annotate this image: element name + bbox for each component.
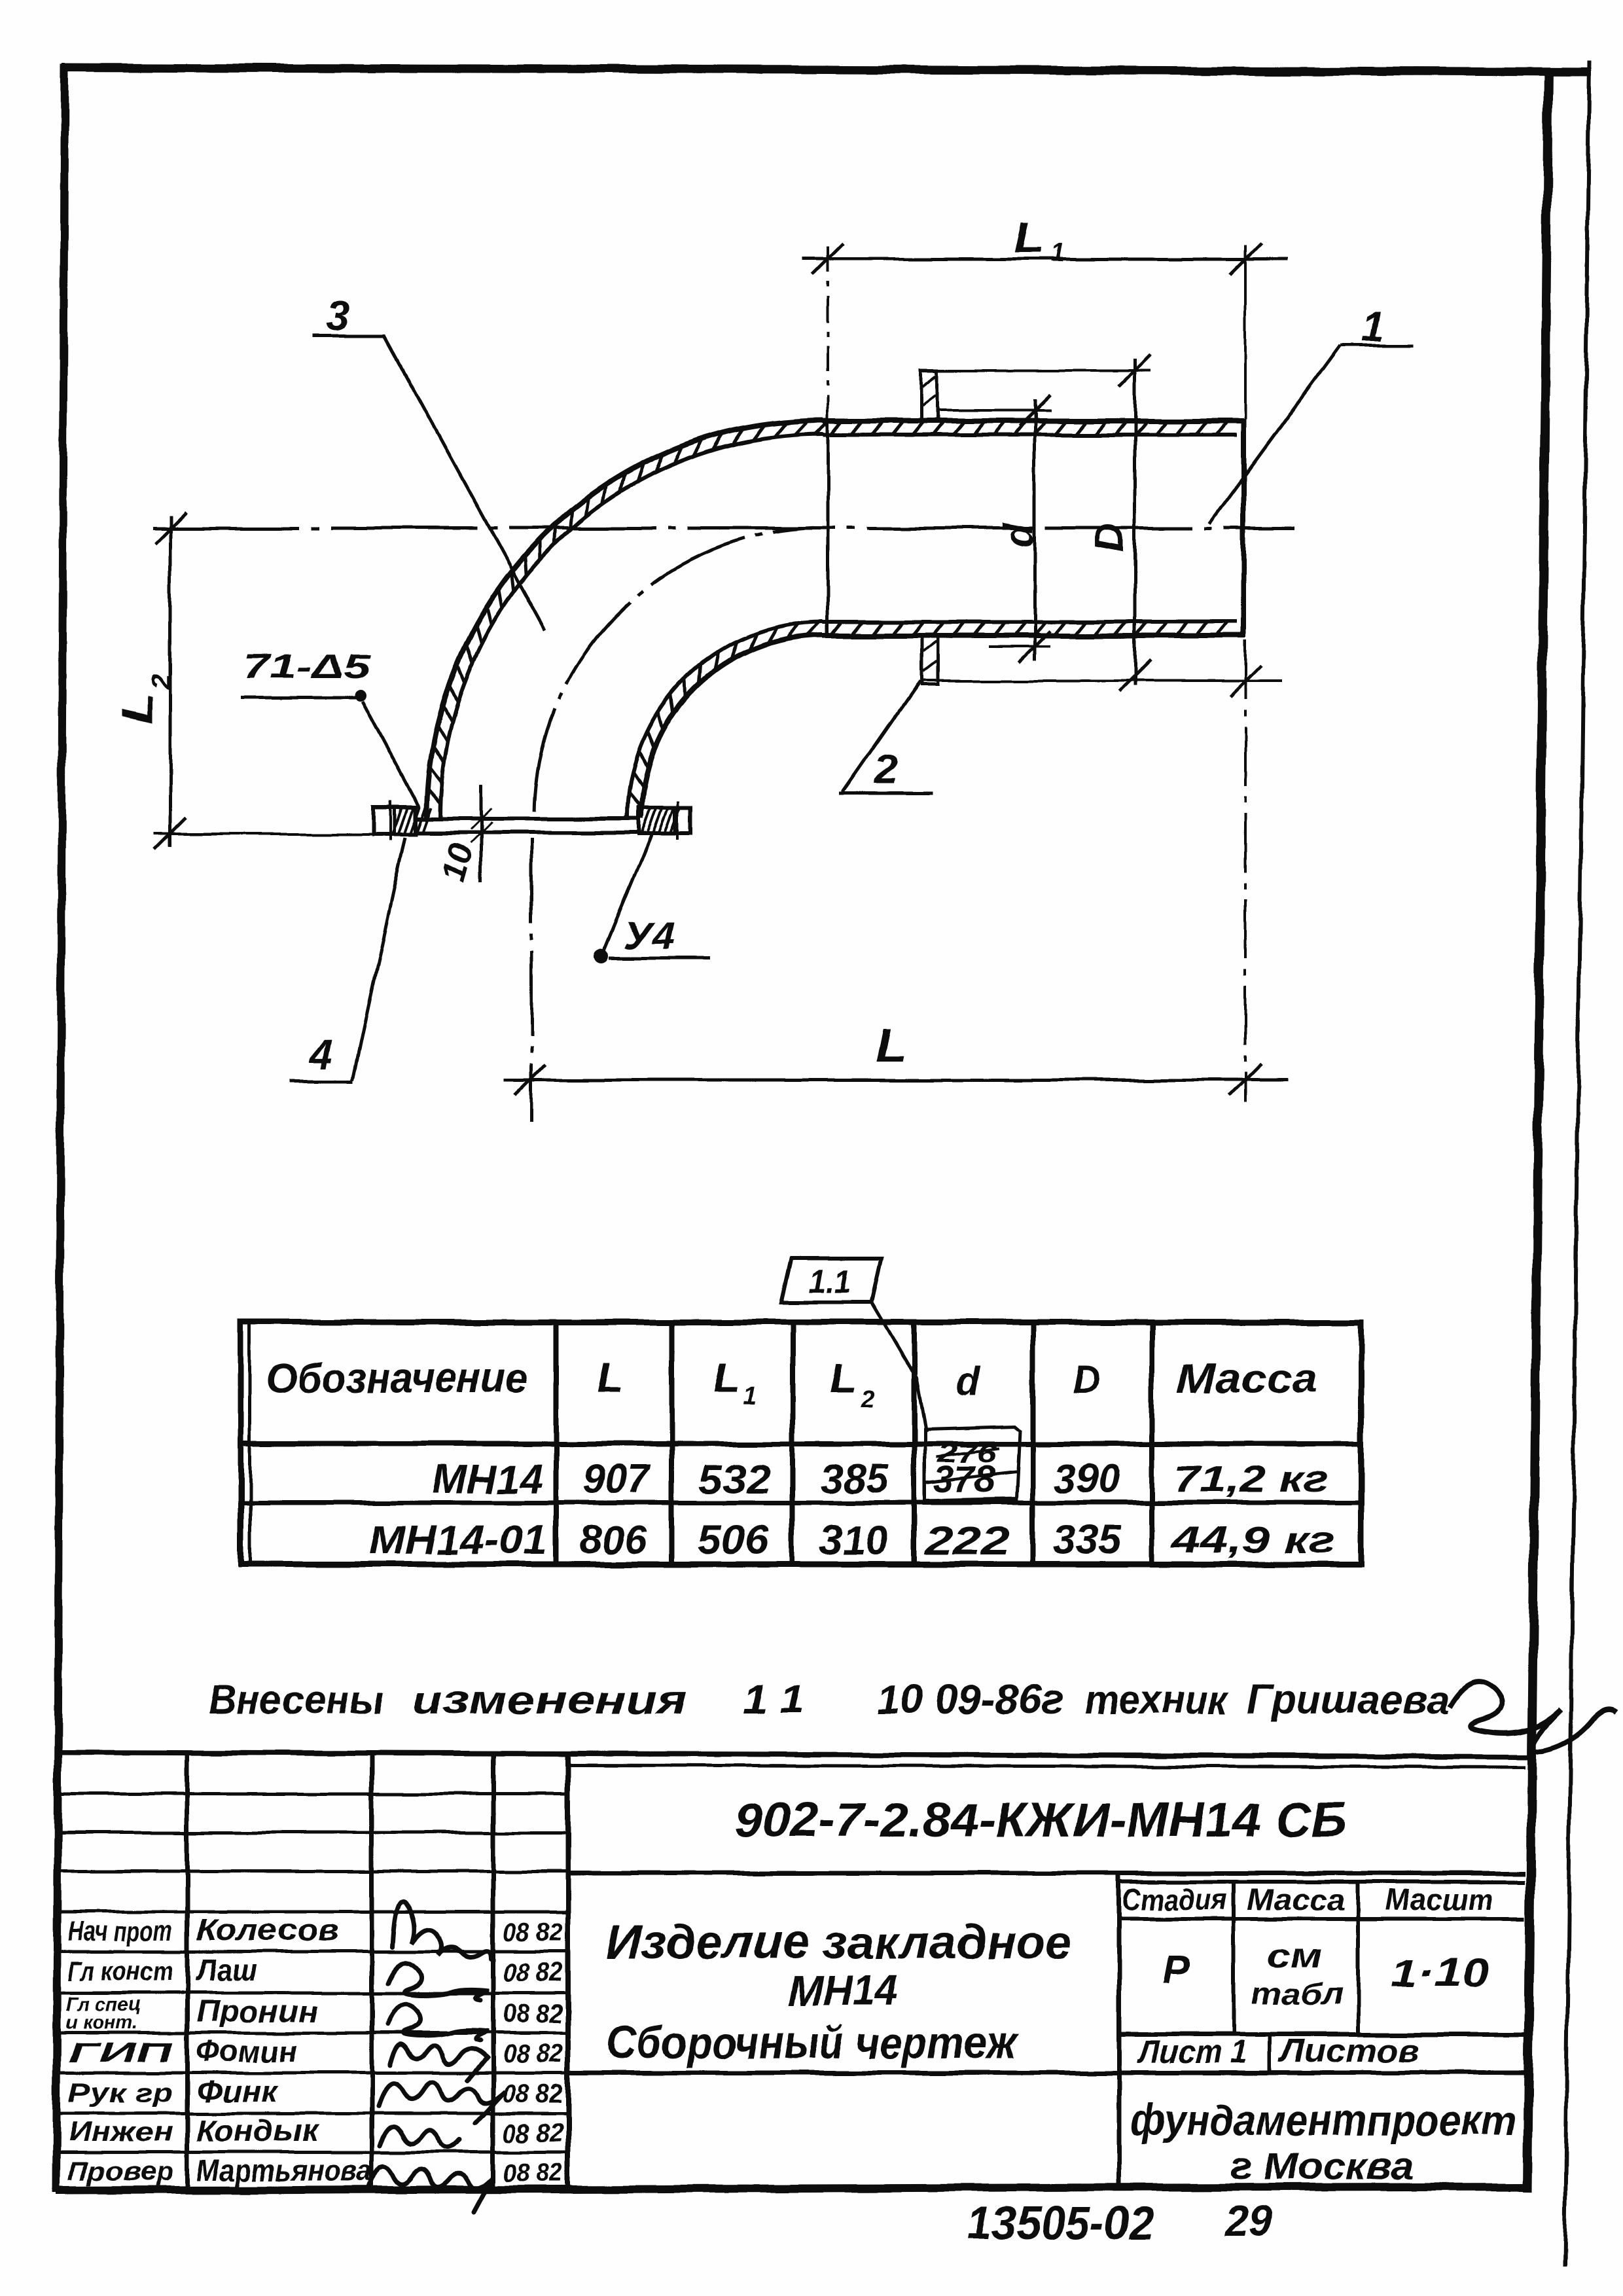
pipe wall hatching: bend outer wall — [428, 789, 441, 804]
svg-text:ГИП: ГИП — [68, 2037, 173, 2068]
item 3: vertical pipe stubs to flange — [424, 816, 429, 819]
svg-text:08 82: 08 82 — [503, 2039, 563, 2068]
svg-text:L: L — [876, 1020, 907, 1071]
pipe wall hatching: bend inner wall — [629, 793, 641, 808]
svg-text:506: 506 — [697, 1518, 770, 1563]
change cloud box in d cell — [925, 1426, 1020, 1501]
svg-text:Р: Р — [1164, 1948, 1190, 1992]
right section verticals — [1117, 1873, 1122, 2191]
svg-text:МН14-01: МН14-01 — [368, 1518, 548, 1563]
item 4: flange right pin mark — [677, 801, 679, 840]
svg-text:Гл конст: Гл конст — [68, 1956, 173, 1986]
doc number cell double top line — [568, 1765, 1525, 1767]
dimension L extension right (dash) — [1244, 640, 1247, 1102]
svg-text:08 82: 08 82 — [503, 2000, 563, 2028]
table row lines — [241, 1441, 1361, 1446]
svg-text:335: 335 — [1053, 1518, 1123, 1563]
pipe wall hatching: top wall — [831, 421, 842, 435]
svg-text:310: 310 — [820, 1518, 889, 1564]
svg-text:902-7-2.84-КЖИ-МН14 СБ: 902-7-2.84-КЖИ-МН14 СБ — [735, 1793, 1347, 1847]
horizontal centreline — [152, 527, 1294, 530]
dimension L1 extension left (dashed) — [827, 246, 829, 419]
svg-text:L: L — [1014, 213, 1044, 262]
dimension d line — [1033, 399, 1037, 661]
svg-text:изменения: изменения — [412, 1677, 687, 1723]
svg-text:Масса: Масса — [1177, 1356, 1318, 1401]
note signature squiggle — [1450, 1682, 1616, 1751]
svg-text:1: 1 — [1050, 239, 1065, 268]
svg-text:Финк: Финк — [196, 2074, 279, 2108]
svg-text:71-Δ5: 71-Δ5 — [243, 648, 371, 686]
signatures — [393, 1902, 491, 1959]
svg-text:Изделие закладное: Изделие закладное — [607, 1916, 1073, 1969]
table outer border — [241, 1322, 1361, 1564]
item 4: flange right block — [639, 808, 691, 834]
svg-text:см: см — [1267, 1939, 1323, 1974]
svg-text:г Москва: г Москва — [1230, 2144, 1414, 2188]
svg-text:Пронин: Пронин — [196, 1994, 318, 2028]
item 3: bend outer wall arcs — [427, 420, 823, 817]
svg-text:1·10: 1·10 — [1391, 1951, 1489, 1995]
dimension D extensions — [921, 369, 1150, 372]
svg-text:10 09-86г: 10 09-86г — [877, 1677, 1063, 1723]
svg-text:МН14: МН14 — [432, 1457, 543, 1502]
svg-text:L: L — [713, 1354, 740, 1401]
svg-text:Обозначение: Обозначение — [266, 1354, 527, 1401]
svg-text:Инжен: Инжен — [68, 2116, 173, 2147]
svg-text:3: 3 — [326, 293, 349, 340]
svg-text:1 1: 1 1 — [743, 1677, 805, 1723]
pipe wall hatching: bottom wall — [831, 622, 842, 636]
svg-text:806: 806 — [579, 1518, 648, 1563]
svg-text:08 82: 08 82 — [503, 1918, 563, 1947]
svg-text:Листов: Листов — [1279, 2032, 1418, 2069]
change flag leader — [872, 1302, 926, 1431]
svg-text:2: 2 — [874, 746, 898, 793]
bend centreline arc — [534, 528, 813, 812]
dimension L line — [504, 1079, 1288, 1082]
change flag 1.1 — [781, 1259, 882, 1302]
svg-text:Лаш: Лаш — [194, 1953, 257, 1987]
dimension L2 line — [169, 516, 172, 847]
dimension L2 bottom extension — [154, 833, 383, 835]
svg-text:44,9 кг: 44,9 кг — [1171, 1518, 1336, 1561]
table column lines — [554, 1322, 559, 1564]
dimension L1 extension right — [1244, 245, 1247, 419]
svg-text:532: 532 — [698, 1457, 770, 1502]
dimension d extensions — [939, 409, 1050, 412]
dimension 10 (flange plate thickness) — [480, 784, 483, 882]
svg-text:МН14: МН14 — [788, 1966, 898, 2015]
svg-text:1.1: 1.1 — [809, 1265, 851, 1299]
svg-text:1: 1 — [743, 1382, 757, 1410]
svg-text:фундаментпроект: фундаментпроект — [1130, 2096, 1516, 2144]
svg-text:d: d — [957, 1360, 982, 1404]
sheet outer edge line — [1565, 61, 1590, 2266]
svg-text:L: L — [113, 692, 161, 724]
svg-text:08 82: 08 82 — [503, 2079, 563, 2108]
svg-text:L: L — [596, 1354, 624, 1401]
left table verticals — [185, 1752, 190, 2189]
svg-text:08 82: 08 82 — [503, 2119, 563, 2147]
svg-text:Лист 1: Лист 1 — [1137, 2034, 1247, 2070]
svg-text:10: 10 — [435, 839, 481, 886]
svg-text:Нач прот: Нач прот — [68, 1916, 173, 1946]
item 2: top stub plate — [921, 370, 938, 421]
item 4: flange left pin mark — [389, 801, 392, 840]
item 1: straight pipe, bottom wall — [823, 620, 1237, 624]
svg-text:Стадия: Стадия — [1122, 1882, 1227, 1916]
svg-text:08 82: 08 82 — [503, 1958, 563, 1987]
dimension L1 line — [802, 258, 1288, 261]
doc number cell — [568, 1871, 1525, 1876]
svg-text:2: 2 — [860, 1386, 874, 1413]
svg-text:и конт.: и конт. — [65, 2012, 137, 2034]
svg-text:222: 222 — [924, 1518, 1010, 1564]
svg-text:71,2 кг: 71,2 кг — [1175, 1458, 1329, 1501]
svg-text:Внесены: Внесены — [208, 1677, 383, 1723]
svg-text:4: 4 — [308, 1030, 332, 1077]
title block top line — [56, 1752, 1527, 1757]
svg-text:Масшт: Масшт — [1386, 1882, 1494, 1916]
svg-text:d: d — [997, 522, 1042, 548]
svg-text:1: 1 — [1361, 302, 1385, 350]
svg-text:907: 907 — [584, 1457, 651, 1502]
svg-text:D: D — [1088, 524, 1133, 553]
right section horizontals — [1119, 1880, 1525, 1884]
svg-text:13505-02: 13505-02 — [967, 2197, 1154, 2248]
svg-text:29: 29 — [1224, 2197, 1272, 2244]
item 4: flange plate — [416, 817, 639, 821]
svg-text:Провер: Провер — [68, 2156, 173, 2187]
item 2: bottom stub plate — [921, 636, 938, 685]
left table row lines — [56, 1793, 568, 1796]
svg-text:Колесов: Колесов — [196, 1913, 338, 1947]
svg-text:Гришаева: Гришаева — [1247, 1677, 1450, 1723]
weld joint line bend/pipe — [827, 421, 830, 638]
svg-text:390: 390 — [1054, 1457, 1120, 1502]
svg-text:Рук гр: Рук гр — [68, 2077, 173, 2108]
svg-text:У4: У4 — [623, 915, 675, 958]
item 1: pipe end face — [1241, 419, 1246, 637]
item 3: bend inner wall arcs — [628, 621, 823, 817]
svg-text:Фомин: Фомин — [196, 2034, 298, 2068]
svg-text:385: 385 — [820, 1457, 890, 1502]
svg-text:2: 2 — [145, 674, 176, 690]
item 1: straight pipe, top wall — [823, 418, 1245, 423]
svg-text:D: D — [1072, 1357, 1100, 1401]
svg-text:табл: табл — [1251, 1977, 1343, 2011]
svg-text:Мартьянова: Мартьянова — [196, 2153, 372, 2187]
vertical centreline below flange — [530, 838, 533, 1121]
svg-text:Сборочный чертеж: Сборочный чертеж — [607, 2017, 1018, 2068]
svg-text:техник: техник — [1085, 1677, 1229, 1723]
item 4: flange left block — [374, 808, 416, 834]
svg-text:Кондык: Кондык — [196, 2113, 320, 2147]
dimension D line — [1133, 359, 1137, 686]
svg-text:Масса: Масса — [1247, 1882, 1345, 1916]
sheet frame border — [62, 67, 1592, 72]
svg-text:L: L — [829, 1354, 857, 1401]
table inner left double line — [249, 1323, 252, 1564]
svg-text:08 82: 08 82 — [503, 2159, 563, 2187]
